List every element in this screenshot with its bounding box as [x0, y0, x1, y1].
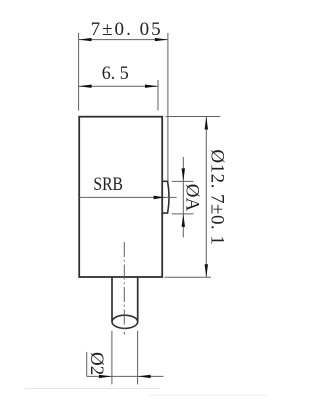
shaft end ellipse	[112, 315, 138, 328]
shaft left edge	[111, 277, 113, 322]
dimension line 6.5	[79, 85, 158, 87]
svg-text:Ø12. 7±0. 1: Ø12. 7±0. 1	[206, 149, 227, 245]
extension line right for Ø2	[137, 331, 139, 385]
dimension line Ø2	[87, 375, 164, 377]
extension line right for 6.5	[157, 80, 159, 111]
side tab on body right edge	[162, 181, 169, 213]
faint border remnant line lower left	[25, 388, 160, 390]
dimension line Ø12.7±0.1	[205, 117, 207, 278]
SRB leader line	[79, 196, 176, 198]
svg-text:SRB: SRB	[93, 174, 123, 195]
dimension line 7±0.05	[79, 39, 168, 41]
extension line bottom for ØA	[172, 213, 194, 215]
extension line bottom for Ø12.7	[165, 276, 212, 278]
svg-text:Ø2: Ø2	[86, 352, 107, 375]
body outline rectangle	[79, 117, 162, 277]
svg-text:6. 5: 6. 5	[102, 63, 129, 84]
extension line top for ØA	[172, 180, 194, 182]
svg-text:ØA: ØA	[181, 184, 202, 212]
extension line left (shared 7 and 6.5)	[78, 33, 80, 111]
extension line top for Ø12.7	[166, 116, 221, 118]
dimension line ØA	[182, 157, 184, 238]
centerline	[123, 242, 125, 335]
dimension line vertical lead for Ø2 text	[86, 352, 88, 377]
extension line left for Ø2	[111, 331, 113, 385]
extension line right for 7±0.05	[167, 33, 169, 181]
shaft right edge	[137, 277, 139, 322]
faint border remnant line lower right	[148, 394, 268, 396]
